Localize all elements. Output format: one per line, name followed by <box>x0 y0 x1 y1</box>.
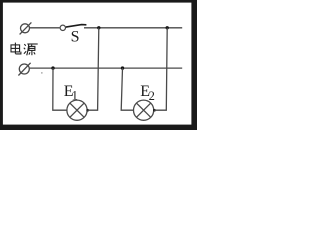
wire: E2 left branch (down from bottom rail, to lamp) <box>121 68 133 110</box>
wire: E1 right branch (lamp up to top rail) <box>87 28 98 110</box>
svg-text:1: 1 <box>72 89 78 103</box>
wire: E2 right branch (lamp up to top rail) <box>154 28 167 110</box>
wire: bottom rail <box>29 67 182 69</box>
wire: top rail right segment (switch to right end) <box>84 27 182 29</box>
node: dot at E2 right lead <box>153 109 156 112</box>
wire: E1 left branch (down from bottom rail, to lamp) <box>53 68 67 110</box>
node: junction dot top rail / E2 branch <box>166 26 169 29</box>
stray speck artifact <box>41 72 43 73</box>
switch S blade <box>66 25 87 28</box>
svg-text:2: 2 <box>149 89 155 103</box>
电 <box>11 45 20 52</box>
label 电源 (power supply) <box>11 43 38 56</box>
node: junction dot bottom rail / E1 branch <box>51 66 54 69</box>
lamp E1 <box>67 100 87 120</box>
terminal (top, power source +) <box>20 22 32 34</box>
源 <box>24 44 26 46</box>
lamp E2 <box>134 100 154 120</box>
node: junction dot top rail / E1 branch <box>97 26 100 29</box>
node: junction dot bottom rail / E2 branch <box>121 66 124 69</box>
terminal (bottom, power source -) <box>18 63 30 76</box>
wire: top rail left segment (terminal to switch) <box>30 27 60 29</box>
node: dot at E1 right lead <box>86 109 89 112</box>
svg-text:S: S <box>71 29 80 46</box>
switch S pivot circle <box>60 25 65 30</box>
border frame <box>0 0 197 130</box>
